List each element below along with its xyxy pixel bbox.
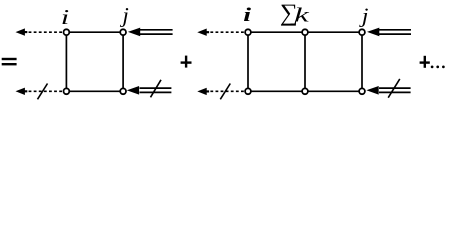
wire left edge D1 — [65, 32, 67, 91]
slash on bottom-left leg D2 — [220, 84, 230, 100]
slash on bottom-right leg D2 — [388, 79, 400, 98]
double-line arrow, top-right D2 — [367, 28, 411, 37]
node D2 bottom-middle — [302, 88, 308, 94]
dashed arrow in, top-left D1 — [16, 28, 64, 35]
double-line arrow with slash, bottom-right D1 — [127, 86, 172, 95]
dashed arrow in, top-left D2 — [197, 29, 245, 36]
node D2 bottom-right — [359, 88, 365, 94]
double-line arrow with slash, bottom-right D2 — [366, 86, 410, 95]
node j D1 (top-right) — [120, 29, 126, 35]
node j D2 (top-right) — [359, 29, 365, 35]
node D1 bottom-right — [120, 88, 126, 94]
slash on bottom-left leg D1 — [38, 84, 48, 100]
wire bottom edge D1 — [66, 90, 123, 92]
dashed arrow with slash, bottom-left D1 — [16, 88, 64, 95]
svg-text:i: i — [61, 5, 69, 29]
svg-text:k: k — [294, 4, 310, 26]
ellipsis dots — [431, 66, 445, 69]
slash on bottom-right leg D1 — [151, 80, 162, 98]
node k D2 (top-middle) — [302, 29, 308, 35]
plus sign between diagrams — [181, 56, 192, 68]
node D2 bottom-left — [245, 88, 251, 94]
wire top edge D1 — [66, 31, 123, 33]
wire bottom edge D2 — [248, 90, 362, 92]
node i D1 (top-left) — [64, 29, 70, 35]
double-line arrow, top-right D1 — [128, 28, 173, 37]
plus sign trailing — [420, 56, 430, 68]
node i D2 (top-left) — [245, 29, 251, 35]
svg-text:j: j — [359, 4, 369, 27]
wire left rung D2 — [247, 32, 249, 91]
svg-text:j: j — [119, 3, 128, 27]
equals sign — [2, 58, 17, 66]
wire right rung D2 — [361, 32, 363, 91]
svg-text:i: i — [243, 5, 251, 26]
wire top edge D2 — [248, 31, 362, 33]
dashed arrow with slash, bottom-left D2 — [197, 88, 245, 95]
wire middle rung D2 — [304, 32, 306, 91]
node D1 bottom-left — [64, 88, 70, 94]
wire right edge D1 — [122, 32, 124, 91]
